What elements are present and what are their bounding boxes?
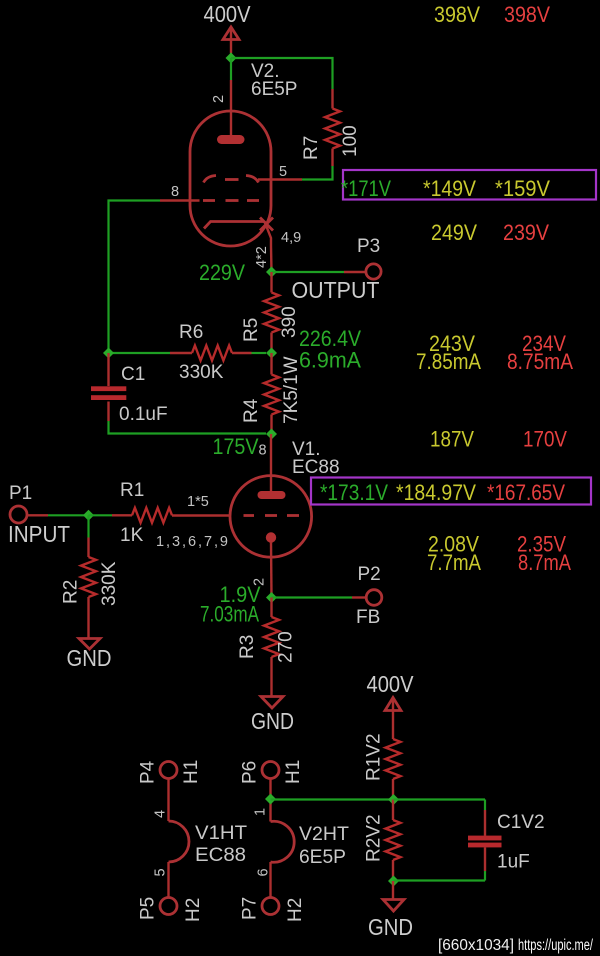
- svg-text:7.7mA: 7.7mA: [427, 550, 481, 575]
- junction supply node: [226, 53, 237, 64]
- svg-text:*167.65V: *167.65V: [487, 480, 565, 505]
- connector P2: [366, 590, 382, 606]
- svg-text:P5: P5: [138, 897, 159, 920]
- svg-text:4: 4: [153, 810, 169, 818]
- svg-text:8: 8: [259, 443, 267, 459]
- pin of P1: [27, 514, 48, 516]
- svg-text:8.7mA: 8.7mA: [518, 550, 571, 575]
- svg-text:H1: H1: [181, 760, 202, 784]
- resistor R2: [61, 515, 121, 638]
- svg-text:R5: R5: [241, 318, 262, 342]
- V1 anode bar: [258, 491, 286, 499]
- svg-text:*159V: *159V: [495, 176, 550, 201]
- capacitor C1V2: [468, 800, 545, 881]
- svg-text:EC88: EC88: [292, 457, 340, 478]
- V1 cathode dot: [266, 532, 276, 542]
- svg-text:1*5: 1*5: [187, 494, 209, 510]
- svg-text:8.75mA: 8.75mA: [507, 349, 573, 374]
- wire node to C1V2 top: [394, 798, 486, 800]
- supply +400V bottom symbol: [385, 698, 401, 740]
- resistor R1: [112, 480, 172, 546]
- svg-text:7.85mA: 7.85mA: [416, 349, 481, 374]
- svg-text:P1: P1: [9, 483, 32, 504]
- pin of P2: [352, 596, 366, 598]
- resistor R4: [241, 353, 302, 434]
- svg-text:GND: GND: [368, 914, 413, 940]
- pin 2 of V1 (cathode): [270, 542, 273, 598]
- svg-text:330K: 330K: [99, 561, 120, 606]
- svg-text:*171V: *171V: [341, 176, 391, 201]
- svg-text:*184.97V: *184.97V: [396, 480, 476, 505]
- pin of P3: [344, 271, 366, 273]
- wire supply to junction: [230, 53, 232, 58]
- svg-text:170V: 170V: [523, 427, 567, 452]
- svg-text:P3: P3: [357, 236, 380, 257]
- svg-text:5: 5: [279, 164, 287, 180]
- wire C1 bottom to 175V node: [109, 421, 267, 434]
- tube V2 envelope: [190, 111, 271, 246]
- svg-text:FB: FB: [356, 607, 380, 628]
- pin 1: [269, 779, 271, 822]
- svg-text:7.03mA: 7.03mA: [200, 602, 259, 627]
- svg-text:239V: 239V: [503, 220, 549, 245]
- junction OUTPUT node: [266, 267, 277, 278]
- connector P1: [10, 506, 27, 523]
- junction input node: [83, 510, 94, 521]
- resistor R7: [301, 89, 361, 166]
- svg-text:4*2: 4*2: [254, 246, 270, 268]
- wire junction down to V2 pin 2: [230, 58, 232, 80]
- svg-text:OUTPUT: OUTPUT: [292, 277, 380, 303]
- supply +400V top symbol: [223, 27, 239, 53]
- heater V2HT: [240, 760, 350, 922]
- svg-text:V1HT: V1HT: [195, 823, 247, 844]
- V2 anode bar: [217, 135, 245, 144]
- wire junction to P3: [272, 271, 345, 273]
- heater V1HT: [138, 760, 248, 922]
- svg-text:5: 5: [153, 868, 169, 876]
- junction R5/R4/R6 node: [266, 348, 277, 359]
- svg-text:R2: R2: [61, 580, 82, 604]
- V2 cathode: [204, 218, 273, 247]
- junction 175V node: [266, 429, 277, 440]
- svg-text:398V: 398V: [434, 2, 480, 27]
- pin 5: [167, 862, 169, 898]
- resistor R3: [237, 598, 297, 697]
- svg-text:R1V2: R1V2: [364, 733, 385, 781]
- svg-text:[660x1034]: [660x1034]: [438, 937, 514, 954]
- svg-text:H2: H2: [183, 898, 204, 922]
- pin 1*5 of V1 (grid) + R1 right pin: [172, 514, 231, 516]
- tube V1 envelope: [230, 476, 312, 558]
- wire junction to R7 top: [231, 58, 333, 89]
- svg-text:400V: 400V: [204, 1, 252, 27]
- pin 2 of V2: [230, 80, 232, 136]
- purple measurement box 1: [343, 170, 596, 200]
- V2 control grid: [203, 199, 259, 202]
- svg-text:6E5P: 6E5P: [299, 847, 346, 868]
- wire C1V2 bottom to node: [394, 879, 486, 881]
- svg-text:4,9: 4,9: [281, 230, 301, 246]
- svg-text:249V: 249V: [431, 220, 477, 245]
- ground GND (R3): [251, 697, 294, 735]
- connector P5: [160, 898, 177, 915]
- junction R1V2/R2V2 node: [388, 794, 399, 805]
- capacitor C1: [91, 353, 168, 425]
- svg-text:INPUT: INPUT: [8, 521, 70, 547]
- junction bottom node: [388, 876, 399, 887]
- V2 screen grid: [204, 176, 259, 183]
- V1 grid dashes: [244, 514, 300, 517]
- wire pin5 to R7 bottom: [302, 166, 333, 180]
- pin 6: [269, 862, 271, 898]
- svg-text:H2: H2: [285, 898, 306, 922]
- svg-text:*149V: *149V: [423, 176, 476, 201]
- svg-text:R3: R3: [237, 635, 258, 659]
- svg-text:R7: R7: [301, 136, 322, 160]
- svg-text:P7: P7: [240, 897, 261, 920]
- svg-text:P4: P4: [138, 760, 159, 784]
- svg-text:1K: 1K: [120, 525, 144, 546]
- svg-text:R2V2: R2V2: [364, 814, 385, 862]
- resistor R1V2: [364, 733, 401, 799]
- svg-text:270: 270: [276, 631, 297, 663]
- wire P1 to junction: [48, 514, 89, 516]
- resistor R6: [170, 322, 252, 383]
- svg-text:6.9mA: 6.9mA: [299, 348, 361, 373]
- wire V2 pin8 down the left to C1 node: [109, 201, 161, 354]
- junction heater node: [265, 794, 276, 805]
- svg-text:*173.1V: *173.1V: [320, 480, 388, 505]
- svg-text:C1V2: C1V2: [497, 812, 545, 833]
- pin 4: [167, 779, 169, 821]
- svg-text:187V: 187V: [430, 427, 474, 452]
- svg-text:GND: GND: [251, 708, 294, 734]
- svg-text:229V: 229V: [199, 260, 245, 285]
- ground GND (R2): [67, 639, 112, 672]
- svg-text:8: 8: [171, 184, 179, 200]
- resistor R5: [241, 272, 300, 353]
- pin 8 of V2: [160, 199, 200, 201]
- connector P3: [366, 264, 381, 279]
- svg-text:1: 1: [253, 808, 269, 816]
- connector P4: [160, 762, 177, 779]
- svg-text:R6: R6: [179, 322, 203, 343]
- svg-text:1uF: 1uF: [497, 852, 530, 873]
- svg-text:398V: 398V: [504, 2, 550, 27]
- svg-text:0.1uF: 0.1uF: [119, 404, 168, 425]
- pin 8 of V1 (anode): [270, 434, 272, 492]
- svg-text:R1: R1: [120, 480, 144, 501]
- connector P6: [262, 762, 279, 779]
- svg-text:100: 100: [340, 125, 361, 157]
- svg-text:2: 2: [211, 95, 227, 103]
- svg-text:390: 390: [279, 306, 300, 338]
- ground GND (R2V2): [368, 881, 413, 940]
- filament bump: [169, 821, 190, 862]
- pin 5 of V2: [258, 178, 302, 180]
- wire heater node to R1V2 node: [271, 798, 394, 800]
- svg-text:400V: 400V: [367, 671, 415, 697]
- svg-text:330K: 330K: [179, 362, 224, 383]
- resistor R2V2: [364, 800, 401, 882]
- svg-text:P6: P6: [240, 761, 261, 784]
- pin 4,9 of V2: [270, 246, 273, 272]
- svg-text:H1: H1: [283, 760, 304, 784]
- svg-text:V2HT: V2HT: [299, 824, 349, 845]
- wire R6 to junction: [252, 352, 267, 354]
- svg-text:GND: GND: [67, 645, 112, 671]
- filament bump: [271, 821, 295, 862]
- svg-text:1,3,6,7,9: 1,3,6,7,9: [156, 534, 228, 550]
- connector P7: [262, 898, 279, 915]
- svg-text:P2: P2: [358, 564, 381, 585]
- junction cathode V1 node: [266, 592, 277, 603]
- wire junction to P2: [272, 596, 353, 598]
- svg-text:EC88: EC88: [195, 845, 246, 866]
- svg-text:175V: 175V: [213, 434, 259, 459]
- svg-text:https://upic.me/: https://upic.me/: [518, 937, 593, 954]
- svg-text:C1: C1: [121, 364, 145, 385]
- junction C1/R6 node: [103, 348, 114, 359]
- svg-text:6: 6: [256, 868, 272, 876]
- svg-text:6E5P: 6E5P: [251, 79, 297, 100]
- wire C1 node to R6: [109, 352, 171, 354]
- purple measurement box 2: [311, 478, 591, 505]
- wire junction to R1: [89, 514, 113, 516]
- svg-text:R4: R4: [241, 398, 262, 423]
